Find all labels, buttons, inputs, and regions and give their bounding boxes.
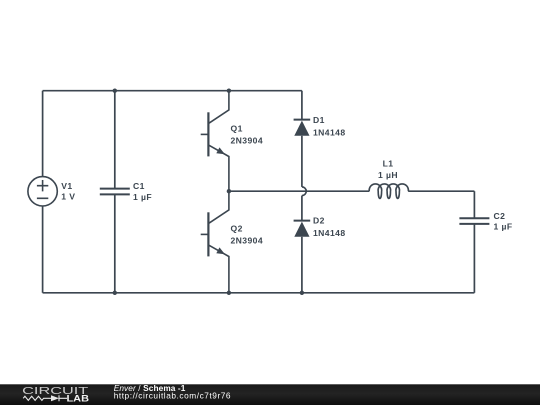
svg-text:1 µF: 1 µF — [133, 192, 152, 202]
junction dot bottom rail Q2 emitter — [227, 291, 231, 295]
wire C2 bottom lead — [473, 224, 475, 293]
svg-text:1 µF: 1 µF — [494, 222, 513, 232]
junction dot top rail Q1 collector — [227, 89, 231, 93]
svg-text:1N4148: 1N4148 — [313, 127, 346, 137]
wire hop over middle rail — [302, 187, 306, 196]
svg-text:1 V: 1 V — [61, 191, 75, 201]
svg-text:2N3904: 2N3904 — [231, 235, 264, 245]
wire middle rail (switch node to L1 and C2) — [229, 190, 369, 192]
label D2 value — [313, 216, 346, 238]
svg-text:2N3904: 2N3904 — [231, 135, 264, 145]
svg-text:LAB: LAB — [67, 394, 90, 404]
label V1 value — [61, 181, 75, 202]
diode D2 — [294, 221, 311, 237]
svg-text:C2: C2 — [494, 211, 506, 221]
diode D1 — [294, 120, 311, 136]
capacitor C2 — [459, 218, 489, 224]
wire D1 top lead — [301, 91, 303, 120]
wire bottom rail — [43, 292, 475, 294]
wire L1 right lead to C2 branch — [408, 190, 474, 192]
wire D2 bottom lead — [301, 237, 303, 293]
junction dot bottom rail D2 — [300, 291, 304, 295]
wire C1 top lead — [114, 91, 116, 189]
label C2 value — [494, 211, 513, 232]
wire left rail lower — [42, 206, 44, 293]
label Q2 value — [231, 224, 264, 246]
svg-text:C1: C1 — [133, 181, 145, 191]
svg-text:D1: D1 — [313, 115, 325, 125]
CircuitLab logo resistor-diode symbol — [23, 395, 67, 401]
voltage source V1 — [28, 177, 57, 206]
label L1 value — [378, 159, 398, 180]
svg-text:V1: V1 — [61, 181, 72, 191]
wire C1 bottom lead — [114, 194, 116, 292]
svg-text:1N4148: 1N4148 — [313, 228, 346, 238]
label Q1 value — [231, 124, 264, 146]
capacitor C1 — [100, 189, 130, 195]
junction dot top rail C1 — [113, 89, 117, 93]
wire C2 top lead — [473, 191, 475, 218]
svg-text:Q2: Q2 — [231, 224, 243, 234]
transistor Q2 — [201, 191, 229, 293]
svg-text:http://circuitlab.com/c7t9r76: http://circuitlab.com/c7t9r76 — [114, 391, 231, 401]
svg-text:L1: L1 — [383, 159, 394, 169]
junction dot bottom rail C1 — [113, 291, 117, 295]
inductor L1 — [369, 184, 408, 198]
label D1 value — [313, 115, 346, 137]
label C1 value — [133, 181, 152, 202]
svg-text:D2: D2 — [313, 216, 325, 226]
junction dot middle rail switch node — [227, 189, 231, 193]
transistor Q1 — [201, 91, 229, 192]
wire top rail — [43, 90, 302, 92]
wire hop to D2 — [301, 196, 303, 221]
svg-text:1 µH: 1 µH — [378, 170, 398, 180]
wire D1 to hop — [301, 136, 303, 187]
footer bar — [0, 384, 540, 405]
wire left rail upper — [42, 91, 44, 177]
svg-text:Q1: Q1 — [231, 124, 243, 134]
